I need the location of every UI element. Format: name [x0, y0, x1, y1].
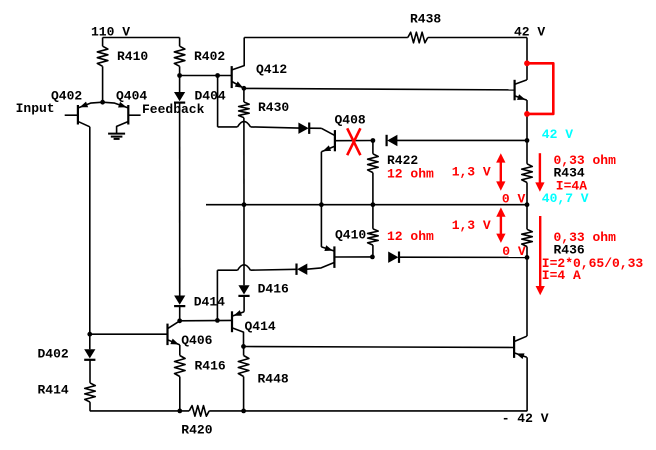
wire D416 to Q414 emitter [243, 296, 245, 312]
wire bottom rail right part [209, 410, 527, 412]
wire bottom rail left part [90, 410, 189, 412]
transistor Q414 [232, 310, 276, 346]
node: emitters of Q402/Q404 junction [100, 100, 105, 105]
resistor 12 ohm (Q410 base) [368, 205, 379, 257]
node bus/R430-wire [242, 202, 247, 207]
resistor R448 [238, 346, 289, 411]
svg-text:D402: D402 [38, 347, 69, 362]
wire Q414 collector to bottom PNP base [244, 347, 515, 348]
diode bias upper-right (points left) [387, 135, 398, 146]
wire D414 to collector node [179, 306, 181, 321]
svg-text:12 ohm: 12 ohm [387, 229, 434, 244]
wire top NPN emitter down [526, 100, 528, 140]
label Input [16, 101, 55, 116]
svg-text:42 V: 42 V [514, 24, 545, 39]
wire bus down to D416 [243, 205, 245, 286]
annotation 0 V lower (red) [502, 244, 526, 259]
wire bus down to Q410 emitter [320, 205, 322, 247]
annotation 42 V (cyan) [542, 127, 573, 142]
red node collector tap [524, 60, 530, 66]
red voltage arrow 1,3 V lower [496, 207, 505, 243]
svg-text:D416: D416 [258, 282, 289, 297]
node Q414 collector junction [241, 344, 246, 349]
value label 0,33 ohm (R436) [554, 230, 617, 245]
transistor Q410 [307, 228, 372, 270]
svg-text:Q410: Q410 [335, 228, 366, 243]
svg-text:110 V: 110 V [91, 25, 130, 40]
label Feedback [142, 102, 205, 117]
diode bias lower (points left) [297, 264, 308, 275]
node Q412 base junction [215, 73, 220, 78]
resistor R422 [368, 141, 419, 205]
node D414/Q406 collector [177, 318, 182, 323]
wire Q412 collector to R438 [244, 37, 408, 39]
wire base-node down [217, 76, 219, 127]
diode D416 [238, 282, 289, 297]
annotation 40,7 V (cyan) [542, 191, 589, 206]
label 42 V [514, 24, 545, 39]
wire R438 to 42 V corner [428, 37, 527, 39]
resistor R438 [408, 12, 442, 43]
node Q408 base junction [371, 138, 376, 143]
node Q412 emitter junction [242, 86, 247, 91]
transistor Q404 [103, 89, 148, 134]
svg-text:40,7 V: 40,7 V [542, 191, 589, 206]
resistor R420 [181, 406, 212, 438]
transistor Q406 [168, 321, 213, 348]
node diode wire / emitter rail junction [525, 138, 530, 143]
svg-text:R410: R410 [117, 49, 148, 64]
wire diode to 42V-side rail [397, 139, 527, 141]
svg-text:Feedback: Feedback [142, 102, 205, 117]
value label 0,33 ohm (R434) [554, 153, 617, 168]
svg-text:- 42 V: - 42 V [502, 411, 549, 426]
red node emitter tap [524, 111, 530, 117]
value label 12 ohm (R422) [387, 167, 434, 182]
svg-text:Input: Input [16, 101, 55, 116]
svg-text:0,33 ohm: 0,33 ohm [554, 230, 617, 245]
wire Q408 emitter down to output bus [320, 152, 322, 205]
node bottom rail / R416 [177, 409, 182, 414]
node Q414 base junction [215, 318, 220, 323]
svg-text:Q406: Q406 [181, 333, 212, 348]
wire Q402 collector down-left [89, 127, 91, 349]
wire base-node to bias diode (hop over R430 wire) [218, 121, 299, 128]
svg-text:D414: D414 [194, 295, 225, 310]
node bus/R434-R436 [525, 202, 530, 207]
svg-text:R414: R414 [38, 383, 69, 398]
node bus/R422 [371, 202, 376, 207]
wire diode to Q408 collector [309, 127, 321, 129]
wire diode to R436 node [399, 256, 527, 258]
annotation 0 V upper (red) [502, 191, 526, 206]
wire bottom PNP emitter to -42V rail [526, 357, 528, 411]
wire 42V corner down to collector [526, 38, 528, 80]
ground [108, 134, 125, 139]
node Q410 base junction [370, 255, 375, 260]
annotation I=4A (red) [556, 178, 587, 193]
wire 110 V supply rail [103, 37, 180, 39]
wire R430 bottom down to output bus [243, 118, 245, 205]
resistor R436 [522, 205, 585, 258]
svg-text:Q402: Q402 [51, 89, 82, 104]
transistor Q412 [232, 38, 288, 89]
transistor Q408 [321, 113, 373, 152]
red current arrow through R436 [536, 216, 545, 295]
wire Q412 emitter to top NPN base [244, 88, 515, 90]
svg-text:Q414: Q414 [245, 319, 276, 334]
resistor R414 [38, 360, 96, 411]
annotation 1,3 V upper (red) [452, 165, 491, 180]
wire Q410 collector line (hop over D416 wire) [217, 265, 296, 270]
diode D404 [174, 76, 226, 104]
transistor output PNP (bottom) [514, 336, 527, 359]
svg-text:R416: R416 [195, 358, 226, 373]
diode D414 [174, 295, 225, 310]
wire Q406 base [90, 333, 168, 335]
svg-text:42 V: 42 V [542, 127, 573, 142]
wire D404 cathode down to D414 [179, 103, 181, 296]
red X over Q408 [347, 128, 360, 155]
annotation 1,3 V lower (red) [452, 218, 491, 233]
svg-text:Q408: Q408 [335, 113, 366, 128]
transistor output NPN (top) [515, 80, 527, 101]
resistor R410 [97, 38, 148, 103]
label - 42 V [502, 411, 549, 426]
label 110 V [91, 25, 130, 40]
diode bias upper (points right) [298, 123, 309, 134]
svg-text:I=4 A: I=4 A [542, 268, 581, 283]
transistor Q402 [51, 89, 103, 127]
svg-text:D404: D404 [195, 88, 226, 103]
svg-text:R448: R448 [258, 372, 289, 387]
svg-text:R402: R402 [194, 49, 225, 64]
annotation I=4 A (red) [542, 268, 581, 283]
svg-text:Q412: Q412 [256, 62, 287, 77]
diode bias lower-right (points right) [388, 252, 399, 263]
svg-text:1,3 V: 1,3 V [452, 218, 491, 233]
svg-text:12 ohm: 12 ohm [387, 167, 434, 182]
annotation I=2*0,65/0,33 (red) [542, 256, 644, 271]
diode D402 [38, 347, 96, 362]
resistor R434 [522, 140, 585, 204]
node R402/D404 junction [177, 73, 182, 78]
red current arrow through R434 [535, 153, 544, 192]
value label 12 ohm (Q410) [387, 229, 434, 244]
svg-text:R420: R420 [181, 423, 212, 438]
resistor R416 [175, 345, 226, 411]
node bus/Q408-emitter [319, 202, 324, 207]
svg-text:1,3 V: 1,3 V [452, 165, 491, 180]
node Q406 base / left rail [87, 332, 92, 337]
svg-text:R438: R438 [410, 12, 441, 27]
node R436 bottom junction [525, 255, 530, 260]
wire corner down to Q414 base node [216, 270, 218, 320]
resistor R402 [174, 38, 225, 76]
red voltage arrow 1,3 V upper [496, 153, 505, 190]
svg-text:R430: R430 [258, 100, 289, 115]
red jumper wire shorting collector-emitter [527, 63, 553, 114]
node bottom rail / R448 [241, 409, 246, 414]
wire R436 node down to bottom PNP [526, 257, 528, 336]
svg-text:0,33 ohm: 0,33 ohm [554, 153, 617, 168]
wire D414 node to Q414 base [180, 319, 232, 321]
wire output bus [206, 204, 527, 206]
resistor R430 [239, 88, 290, 117]
wire R402 bottom to Q412 base [180, 75, 232, 77]
